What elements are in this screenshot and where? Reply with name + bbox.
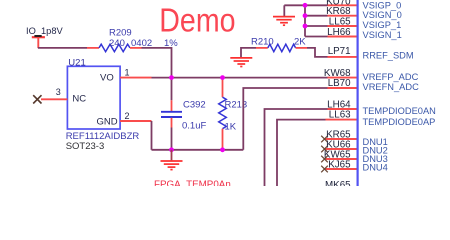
wire to pin KR68 <box>305 15 328 17</box>
svg-text:NC: NC <box>72 94 86 105</box>
svg-text:LB70: LB70 <box>328 78 351 89</box>
resistor R213 <box>219 78 248 150</box>
wire VO net (VREFP_ADC) <box>152 77 328 79</box>
svg-text:VSIGN_0: VSIGN_0 <box>363 10 402 20</box>
junction node bus KR68 <box>303 13 308 18</box>
no-connect X on pin 3 <box>33 95 41 103</box>
pin 2 (GND) <box>120 111 151 121</box>
wire R209 to VO net <box>142 48 172 78</box>
pin LL63 stub <box>326 119 358 121</box>
svg-text:U21: U21 <box>68 57 85 68</box>
svg-text:VREFN_ADC: VREFN_ADC <box>363 82 420 92</box>
pin number labels <box>324 0 351 191</box>
svg-text:MK65: MK65 <box>325 180 351 186</box>
svg-text:2K: 2K <box>294 36 306 47</box>
wire to pin KU70 <box>305 4 328 6</box>
wire TEMPDIODE0AP net <box>277 120 326 186</box>
pin 1 (VO) <box>120 67 151 77</box>
resistor R210 <box>241 36 328 57</box>
pin LP71 stub <box>328 56 358 58</box>
svg-text:RREF_SDM: RREF_SDM <box>363 51 414 61</box>
pin LH64 stub <box>328 108 358 110</box>
wire to pin LL65 <box>305 25 328 27</box>
svg-text:LP71: LP71 <box>328 46 351 57</box>
svg-text:LL63: LL63 <box>329 109 351 120</box>
wire pin 2 to ground rail <box>151 121 153 150</box>
junction node bus LL65 <box>303 24 308 29</box>
pin KJ65 stub with no-connect <box>325 168 358 170</box>
svg-text:C392: C392 <box>183 100 206 111</box>
svg-text:LH66: LH66 <box>327 27 351 38</box>
wire IO_1p8V to R209 <box>38 47 87 49</box>
wire VREFN_ADC net <box>243 88 327 150</box>
svg-text:VSIGP_0: VSIGP_0 <box>363 1 402 11</box>
svg-text:1K: 1K <box>225 122 237 133</box>
svg-text:Demo: Demo <box>159 2 235 39</box>
pin KW68 stub <box>328 77 358 79</box>
svg-text:GND: GND <box>97 116 118 127</box>
power symbol IO_1p8V <box>26 26 63 48</box>
svg-text:240: 240 <box>109 38 125 49</box>
svg-text:KJ65: KJ65 <box>328 159 351 170</box>
svg-text:VSIGP_1: VSIGP_1 <box>363 20 402 30</box>
ground symbol top <box>273 5 295 25</box>
junction node at C392 top <box>169 75 174 80</box>
junction node at C392 bottom <box>169 147 174 152</box>
svg-text:R210: R210 <box>251 36 274 47</box>
pin LB70 stub <box>328 87 358 89</box>
svg-text:2: 2 <box>125 111 130 121</box>
bus vertical wire (VSIG ground bus) <box>304 5 306 36</box>
svg-text:1: 1 <box>125 67 130 77</box>
net name labels <box>363 1 436 173</box>
svg-text:TEMPDIODE0AN: TEMPDIODE0AN <box>363 106 436 116</box>
ground symbol R210 <box>230 58 252 67</box>
wire to pin LH66 <box>305 36 328 38</box>
svg-text:3: 3 <box>56 87 61 97</box>
ground symbol main <box>161 150 183 170</box>
pin KW65 stub with no-connect <box>325 158 358 160</box>
svg-text:LL65: LL65 <box>329 16 351 27</box>
junction node bus KU70 <box>303 3 308 8</box>
svg-text:0.1uF: 0.1uF <box>182 121 206 132</box>
wire ground to top bus <box>284 4 305 6</box>
svg-text:VREFP_ADC: VREFP_ADC <box>363 72 419 82</box>
svg-text:R209: R209 <box>109 28 132 39</box>
svg-text:TEMPDIODE0AP: TEMPDIODE0AP <box>363 117 436 127</box>
resistor R209 <box>87 28 178 52</box>
pin 3 (NC) <box>41 87 67 99</box>
wire TEMPDIODE0AN net <box>265 109 328 186</box>
svg-text:VSIGN_1: VSIGN_1 <box>363 30 402 40</box>
svg-text:IO_1p8V: IO_1p8V <box>26 26 63 36</box>
FPGA component boundary <box>357 0 359 186</box>
junction node at R213 bottom <box>220 147 225 152</box>
IC U21 <box>66 57 140 152</box>
pin KR65 stub with no-connect <box>325 138 358 140</box>
svg-text:DNU4: DNU4 <box>363 162 388 172</box>
junction node at R213 top <box>220 75 225 80</box>
svg-text:FPGA_TEMP0An: FPGA_TEMP0An <box>154 180 231 186</box>
svg-text:VO: VO <box>100 73 114 84</box>
svg-text:SOT23-3: SOT23-3 <box>66 141 105 152</box>
capacitor C392 <box>161 78 206 150</box>
pin KU66 stub with no-connect <box>325 148 358 150</box>
ground rail <box>152 149 244 151</box>
